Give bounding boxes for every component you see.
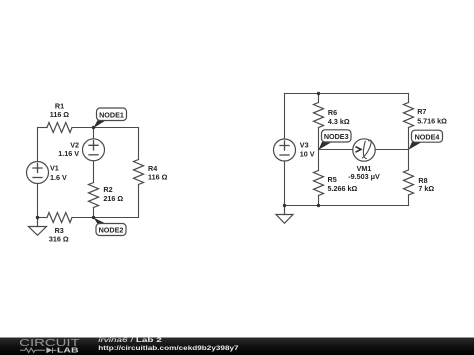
resistor R5 bbox=[314, 171, 324, 196]
svg-text:1.6 V: 1.6 V bbox=[50, 173, 67, 182]
wire right branch lower bbox=[138, 185, 140, 218]
wire voltmeter to NODE4 bbox=[375, 149, 409, 151]
svg-text:NODE3: NODE3 bbox=[324, 132, 349, 141]
junction dot at NODE1 bbox=[92, 126, 95, 129]
voltage source V2 bbox=[83, 139, 105, 161]
resistor R7 bbox=[404, 103, 414, 128]
node NODE3 bbox=[319, 130, 352, 150]
svg-text:5.266 kΩ: 5.266 kΩ bbox=[328, 184, 358, 193]
svg-text:216 Ω: 216 Ω bbox=[103, 194, 123, 203]
svg-text:V1: V1 bbox=[50, 164, 59, 173]
junction dot at NODE2 bbox=[92, 216, 95, 219]
wire R7 upper lead bbox=[408, 94, 410, 103]
wire R6 to NODE3 bbox=[318, 128, 320, 150]
wire bottom right segment bbox=[72, 217, 139, 219]
junction dot top of R6 bbox=[317, 92, 320, 95]
svg-text:LAB: LAB bbox=[57, 345, 79, 354]
svg-text:http://circuitlab.com/cekd9b2y: http://circuitlab.com/cekd9b2y398y7 bbox=[98, 345, 239, 352]
wire R7 to NODE4 bbox=[408, 128, 410, 150]
wire left branch upper bbox=[37, 128, 39, 162]
wire top rail (right circuit) bbox=[285, 93, 409, 95]
voltage source V3 bbox=[274, 139, 296, 161]
ground (left circuit) bbox=[29, 218, 47, 236]
svg-text:R6: R6 bbox=[328, 108, 337, 117]
wire top left segment (left circuit) bbox=[38, 127, 48, 129]
wire left branch upper (V3) bbox=[284, 94, 286, 140]
svg-text:10 V: 10 V bbox=[300, 150, 315, 159]
svg-text:7 kΩ: 7 kΩ bbox=[418, 184, 434, 193]
wire top right segment to R4 bbox=[72, 127, 139, 129]
wire R2 to bottom bbox=[93, 208, 95, 218]
svg-text:4.3 kΩ: 4.3 kΩ bbox=[328, 117, 350, 126]
svg-text:NODE1: NODE1 bbox=[99, 110, 124, 119]
wire V2 to R2 bbox=[93, 161, 95, 183]
svg-text:NODE4: NODE4 bbox=[415, 132, 440, 141]
resistor R1 bbox=[47, 123, 72, 133]
svg-text:R5: R5 bbox=[328, 175, 337, 184]
wire NODE3 to voltmeter bbox=[319, 149, 354, 151]
voltage source V1 bbox=[27, 162, 49, 184]
svg-text:R2: R2 bbox=[103, 185, 112, 194]
node NODE1 bbox=[94, 108, 127, 128]
wire NODE3 to R5 bbox=[318, 150, 320, 171]
svg-text:116 Ω: 116 Ω bbox=[50, 110, 70, 119]
svg-text:irvina6 / Lab 2: irvina6 / Lab 2 bbox=[98, 337, 162, 344]
ground (right circuit) bbox=[276, 206, 293, 224]
junction dot at V1 bottom bbox=[36, 216, 39, 219]
svg-text:1.16 V: 1.16 V bbox=[58, 149, 79, 158]
svg-text:NODE2: NODE2 bbox=[99, 226, 124, 235]
wire V2 branch upper bbox=[93, 128, 95, 140]
CircuitLab logo wire with resistor and diode bbox=[20, 348, 56, 353]
wire right branch upper (to R4) bbox=[138, 128, 140, 160]
node NODE4 bbox=[409, 130, 443, 150]
wire left branch lower bbox=[37, 184, 39, 218]
wire R8 lower lead bbox=[408, 195, 410, 206]
svg-text:R7: R7 bbox=[417, 107, 426, 116]
svg-text:5.716 kΩ: 5.716 kΩ bbox=[417, 117, 447, 126]
svg-text:316 Ω: 316 Ω bbox=[49, 235, 69, 244]
resistor R8 bbox=[404, 170, 414, 195]
wire R5 lower lead bbox=[318, 196, 320, 206]
resistor R3 bbox=[47, 213, 72, 223]
voltmeter VM1 bbox=[353, 139, 375, 161]
junction dot at ground (right) bbox=[283, 204, 286, 207]
svg-text:-9.503 μV: -9.503 μV bbox=[348, 172, 380, 181]
node NODE2 bbox=[94, 218, 127, 236]
svg-text:V3: V3 bbox=[300, 141, 309, 150]
footer bar bbox=[0, 338, 474, 355]
resistor R4 bbox=[134, 160, 144, 185]
wire NODE4 to R8 bbox=[408, 150, 410, 171]
svg-text:116 Ω: 116 Ω bbox=[148, 172, 168, 181]
wire left branch lower bbox=[284, 161, 286, 206]
resistor R2 bbox=[89, 183, 99, 208]
wire R6 upper lead bbox=[318, 94, 320, 103]
resistor R6 bbox=[314, 103, 324, 128]
wire bottom rail (right circuit) bbox=[285, 205, 409, 207]
junction dot bottom of R5 bbox=[317, 204, 320, 207]
wire bottom left segment bbox=[38, 217, 48, 219]
